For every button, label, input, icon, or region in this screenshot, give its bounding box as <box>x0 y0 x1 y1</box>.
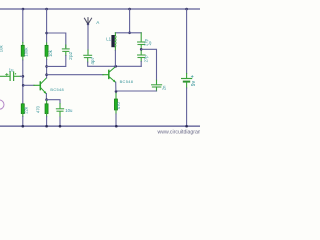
battery B1 positive plate <box>182 78 192 80</box>
transistor Q1 emitter arrow <box>44 91 47 94</box>
resistor R4 bottom lead <box>46 114 48 117</box>
transistor Q2 collector lead <box>109 67 116 73</box>
wire branch A middle <box>22 60 24 104</box>
wire parallel cap return <box>47 56 66 67</box>
antenna symbol <box>84 18 91 25</box>
node base junction <box>22 84 25 87</box>
node cap return junction <box>45 65 48 68</box>
capacitor C2 plate 1 <box>62 48 69 50</box>
capacitor C7 bottom lead <box>156 87 158 91</box>
svg-text:2n: 2n <box>162 85 167 90</box>
svg-text:BC548: BC548 <box>50 87 64 92</box>
wire battery to ground <box>186 88 188 126</box>
capacitor C7 plate 1 <box>152 84 162 86</box>
wire battery top <box>186 9 188 74</box>
transistor Q2 emitter lead <box>109 76 116 82</box>
node coupling junction <box>45 73 48 76</box>
capacitor C4 plate 2 <box>84 57 91 59</box>
resistor R1 body <box>21 45 24 56</box>
svg-text:10u: 10u <box>65 108 73 113</box>
wire parallel cap top branch <box>47 33 66 48</box>
wire microphone line (left edge) <box>0 75 10 77</box>
microphone MIC1 (cut at left edge) <box>0 100 4 109</box>
inductor L1 winding arcs <box>115 35 116 47</box>
svg-text:470: 470 <box>116 102 121 110</box>
wire L1 bottom to collector node <box>114 50 116 66</box>
node ground rail x60 <box>59 125 62 128</box>
wire branch B upper (rail to R3) <box>46 9 48 43</box>
node mic-cap junction <box>22 75 25 78</box>
battery B1 plus sign <box>191 75 193 77</box>
svg-text:470: 470 <box>35 105 40 113</box>
resistor R3 body <box>45 45 48 56</box>
capacitor C2 top lead tip <box>65 45 67 48</box>
capacitor C4 bottom lead <box>87 58 89 62</box>
capacitor C5 plate 1 <box>138 41 145 43</box>
wire C5 to C6 <box>140 45 142 55</box>
capacitor C2 plate 2 <box>63 50 69 52</box>
svg-text:27p: 27p <box>144 55 149 63</box>
capacitor C3 plate 1 <box>56 108 63 110</box>
node cap divider junction <box>140 48 143 51</box>
capacitor C4 top lead <box>87 50 89 54</box>
node J4 top rail x186.6 <box>185 8 188 11</box>
transistor Q1 emitter lead <box>40 87 46 93</box>
resistor R3 bottom lead <box>46 56 48 59</box>
svg-text:1u: 1u <box>9 67 14 72</box>
resistor R4 top lead <box>46 100 48 104</box>
wire R4 to ground <box>46 117 48 127</box>
wire bypass cap branch <box>47 100 60 104</box>
node J1 top rail x23 <box>22 8 25 11</box>
wire Q1 emitter branch <box>45 94 47 100</box>
node ground rail x22.8 <box>22 125 25 128</box>
node ground rail x186.6 <box>185 125 188 128</box>
wire C1 to branch A <box>14 75 20 77</box>
svg-text:2p2: 2p2 <box>68 51 74 59</box>
resistor R5 bottom lead <box>115 110 117 114</box>
wire antenna mast <box>87 24 89 50</box>
transistor Q2 emitter arrow <box>113 80 116 83</box>
wire L1 top feed <box>129 9 131 33</box>
wire coupling Q1 collector to Q2 base <box>47 74 103 76</box>
wire feedback bottom (C7 to emitter) <box>116 91 157 93</box>
capacitor C1 plate 1 <box>9 72 11 80</box>
wire Q1 base <box>23 84 34 86</box>
capacitor C1 polarity mark <box>6 73 8 75</box>
node parallel-cap top junction <box>45 32 48 35</box>
resistor R1 top lead <box>22 43 24 46</box>
svg-text:10k: 10k <box>0 45 4 53</box>
node ground rail x46.6 <box>45 125 48 128</box>
node emitter feedback junction <box>115 90 118 93</box>
svg-text:22k: 22k <box>24 106 29 114</box>
resistor R1 bottom lead <box>22 56 24 60</box>
resistor R2 bottom lead <box>22 114 24 117</box>
capacitor C1 pin dot <box>15 73 16 74</box>
wire feedback top (divider to C7) <box>141 49 156 80</box>
wire top supply rail <box>0 8 200 10</box>
capacitor C5 top lead <box>140 33 142 41</box>
node J2 top rail x46.6 <box>45 8 48 11</box>
capacitor C5 plate 2 <box>138 44 145 46</box>
node emitter junction <box>45 98 48 101</box>
wire branch A upper (rail to R1) <box>22 9 24 43</box>
svg-text:www.circuitdiagram.o: www.circuitdiagram.o <box>158 129 201 135</box>
wire branch B lower to collector <box>46 60 48 78</box>
capacitor C6 plate 1 <box>138 54 145 56</box>
svg-text:L1: L1 <box>106 36 111 41</box>
node J3 top rail x129.6 <box>128 8 131 11</box>
resistor R3 top lead <box>46 43 48 46</box>
wire C3 to ground <box>59 117 61 126</box>
capacitor C1 plate 2 <box>13 72 15 80</box>
battery B1 negative plate <box>184 81 189 83</box>
svg-text:100k: 100k <box>23 47 28 57</box>
inductor L1 top lead <box>114 33 116 35</box>
capacitor C2 bottom lead <box>65 52 67 55</box>
node collector junction <box>114 65 117 68</box>
resistor R2 top lead <box>22 103 24 106</box>
svg-text:2p: 2p <box>148 41 152 45</box>
battery B1 top lead <box>186 74 188 79</box>
wire tank top <box>115 32 141 34</box>
transistor Q2 base bar <box>108 70 110 78</box>
transistor Q1 base bar <box>39 82 41 90</box>
resistor R5 body <box>114 99 117 110</box>
transistor Q1 collector lead <box>40 78 46 84</box>
capacitor C4 plate 1 <box>84 54 92 56</box>
inductor L1 core bar <box>111 35 114 47</box>
wire Q2 emitter down <box>115 82 117 91</box>
capacitor C7 plate 2 <box>152 86 160 88</box>
capacitor C6 plate 2 <box>138 57 145 59</box>
wire antenna cap to collector node <box>88 62 142 66</box>
svg-text:4p7: 4p7 <box>90 56 95 64</box>
capacitor C3 plate 2 <box>57 110 63 112</box>
capacitor C3 top lead <box>59 104 61 108</box>
capacitor C7 top lead <box>156 80 158 84</box>
wire C6 bottom to collector wire <box>140 62 142 67</box>
node tank top junction <box>128 32 131 35</box>
capacitor C3 bottom lead <box>59 112 61 117</box>
battery B1 bottom lead <box>186 83 188 88</box>
svg-text:10k: 10k <box>48 49 53 57</box>
capacitor C6 bottom lead <box>140 58 142 62</box>
wire R2 to ground rail <box>22 117 24 127</box>
svg-text:9v: 9v <box>191 80 197 86</box>
resistor R5 top lead <box>115 93 117 99</box>
svg-text:BC548: BC548 <box>120 79 134 84</box>
resistor R4 body <box>45 104 48 114</box>
inductor L1 bottom lead <box>114 47 116 50</box>
resistor R2 body <box>21 104 24 114</box>
wire R5 to ground <box>115 114 117 126</box>
wire bottom ground rail <box>0 125 200 127</box>
node ground rail x116 <box>115 125 118 128</box>
